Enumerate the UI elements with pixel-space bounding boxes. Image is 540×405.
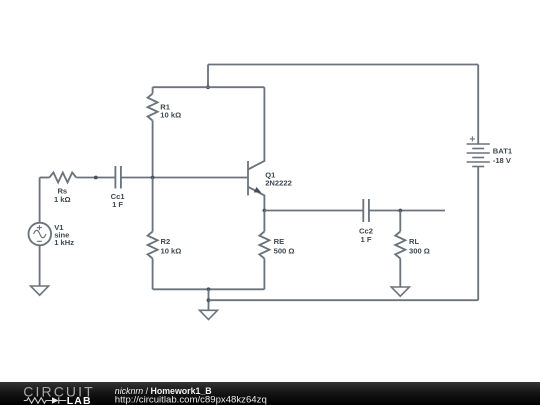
ground center: [200, 310, 218, 319]
svg-text:http://circuitlab.com/c89px48k: http://circuitlab.com/c89px48kz64zq: [115, 395, 267, 405]
capacitor Cc1: [115, 166, 121, 189]
footer bar: [0, 382, 540, 405]
label R1 value: [160, 103, 181, 120]
battery BAT1: [467, 136, 490, 166]
node junction dot base row: [94, 176, 98, 180]
svg-text:1 F: 1 F: [112, 200, 123, 209]
wire Cc2 to open end: [369, 210, 445, 212]
voltage source V1 vertical lead: [39, 178, 41, 223]
node junction dot top rail / R1 rail: [206, 85, 210, 89]
svg-text:1 kHz: 1 kHz: [54, 238, 74, 247]
wire R1 rail horizontal: [153, 86, 265, 88]
svg-text:-18 V: -18 V: [493, 156, 512, 165]
label R2 value: [161, 237, 182, 255]
wire top rail drop to R1 rail: [207, 65, 209, 88]
label Cc1 value: [111, 192, 126, 209]
svg-text:1 F: 1 F: [361, 235, 372, 244]
wire ground stem center: [208, 289, 210, 310]
label RL value: [409, 237, 430, 255]
logo CIRCUIT text: [23, 383, 94, 399]
wire battery top lead: [477, 65, 479, 145]
svg-text:300 Ω: 300 Ω: [409, 247, 430, 256]
label Q1 value: [265, 170, 292, 187]
logo resistor zigzag and diode: [24, 397, 66, 403]
wire Rs to Cc1: [76, 177, 115, 179]
wire bottom rail R2 to RE: [153, 288, 265, 290]
svg-text:R2: R2: [161, 237, 171, 246]
svg-text:500 Ω: 500 Ω: [274, 247, 295, 256]
resistor RE: [259, 211, 269, 290]
resistor Rs: [49, 173, 76, 183]
transistor Q1: [248, 161, 264, 211]
wire top rail: [208, 64, 478, 66]
wire battery return bottom: [209, 299, 479, 301]
wire Cc1 to base of Q1: [121, 177, 248, 179]
svg-text:RL: RL: [409, 237, 419, 246]
label Cc2 value: [359, 226, 373, 244]
label BAT1 value: [493, 147, 513, 165]
label Rs value: [54, 187, 71, 204]
wire battery bottom lead: [477, 167, 479, 301]
node junction dot ground stem / battery return: [207, 298, 211, 302]
node junction dot bottom rail: [207, 287, 211, 291]
voltage source V1: [29, 223, 52, 246]
wire V1 to ground: [39, 245, 41, 286]
wire emitter to Cc2: [264, 210, 363, 212]
ground below RL: [391, 287, 409, 296]
svg-text:RE: RE: [274, 237, 285, 246]
wire base row left segment: [40, 177, 50, 179]
label V1 value: [54, 223, 74, 247]
svg-text:2N2222: 2N2222: [265, 179, 292, 188]
resistor R1: [148, 87, 158, 177]
ground below V1: [31, 286, 49, 295]
svg-text:10 kΩ: 10 kΩ: [161, 247, 182, 256]
footer url line: [115, 395, 267, 405]
label RE value: [274, 237, 295, 255]
svg-text:LAB: LAB: [67, 395, 92, 405]
resistor RL: [395, 211, 405, 288]
logo LAB text: [67, 395, 92, 405]
svg-text:10 kΩ: 10 kΩ: [160, 111, 181, 120]
svg-text:BAT1: BAT1: [493, 147, 513, 156]
transistor Q1 collector lead: [248, 87, 264, 169]
node junction dot RL tap: [398, 209, 402, 213]
footer title line: [115, 386, 212, 396]
node junction dot base / R1-R2 divider: [151, 176, 155, 180]
capacitor Cc2: [363, 199, 369, 222]
svg-text:1 kΩ: 1 kΩ: [54, 195, 71, 204]
node emitter junction dot: [263, 209, 267, 213]
resistor R2: [148, 178, 158, 290]
